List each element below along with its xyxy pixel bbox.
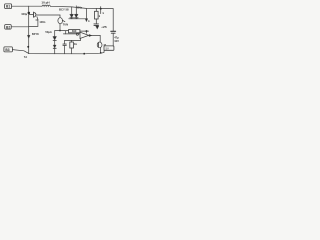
- junction node A dot: [28, 12, 31, 15]
- wire rail after coil: [50, 6, 113, 8]
- svg-text:BZY8: BZY8: [32, 32, 39, 36]
- resistor R3 box: [70, 42, 74, 48]
- capacitor C2 top tick: [36, 19, 38, 21]
- wire J1 to node A: [12, 5, 29, 7]
- svg-text:5V: 5V: [106, 46, 110, 50]
- svg-text:10V: 10V: [114, 39, 119, 43]
- V1 current arrowhead: [27, 35, 30, 38]
- diode D2 triangle: [75, 14, 79, 17]
- svg-text:B3: B3: [5, 48, 9, 52]
- diode D2 stub: [75, 18, 77, 19]
- resistor R4 box: [95, 11, 99, 19]
- resistor R3 bottom lead: [71, 48, 73, 54]
- transistor Q2 emitter lead: [59, 24, 61, 31]
- transistor Q3 emitter lead: [100, 48, 102, 53]
- diode D1 stub: [71, 18, 73, 19]
- tick connecting divider to input: [65, 31, 67, 34]
- svg-text:B1: B1: [6, 5, 10, 9]
- vertical wire V1 (left bus): [28, 6, 30, 53]
- capacitor C5 top plate: [111, 30, 116, 32]
- node E dot: [83, 53, 85, 55]
- diode D1 triangle: [70, 14, 74, 17]
- wire lower input: [65, 38, 81, 40]
- transistor Q2 emitter arrow: [62, 20, 65, 22]
- diode D2 cathode bar: [75, 17, 79, 19]
- input bubble: [76, 33, 78, 35]
- capacitor C5 lead down: [112, 33, 114, 46]
- wire divider row: [55, 30, 69, 32]
- svg-text:7A: 7A: [24, 55, 27, 59]
- capacitor C1 plate bar: [33, 12, 35, 17]
- node B dot: [59, 30, 61, 32]
- capacitor C1 curved plate: [35, 13, 36, 17]
- zener D3 lead: [54, 31, 56, 37]
- stub node C to op-amp: [86, 31, 88, 33]
- diode D4 lead: [54, 41, 56, 45]
- capacitor C4 bottom plate: [94, 24, 99, 26]
- capacitor C6 lead to rail: [64, 46, 66, 54]
- capacitor C6 top plate: [63, 43, 66, 45]
- diode D2 lead: [75, 6, 77, 14]
- node D dot: [100, 8, 102, 10]
- diode D4 triangle: [53, 45, 56, 48]
- bottom rail: [12, 50, 104, 54]
- svg-text:TUN: TUN: [63, 22, 69, 26]
- node D stub down: [100, 9, 102, 14]
- svg-text:50µA: 50µA: [45, 30, 51, 34]
- transistor Q3 base bar: [98, 43, 100, 47]
- resistor R5 box: [69, 30, 80, 33]
- transistor Q2 collector lead: [59, 15, 61, 18]
- capacitor C1 wire stub: [29, 14, 33, 16]
- capacitor C6 bottom plate: [63, 45, 66, 47]
- wire under diodes: [69, 18, 87, 20]
- transistor Q3 body: [97, 42, 102, 48]
- inductor L1 coil: [42, 5, 50, 6]
- capacitor C4 top plate: [94, 23, 99, 25]
- op-amp output wire: [89, 35, 101, 40]
- supply arrowhead +VB: [95, 24, 97, 27]
- wire J2 to V1: [11, 26, 29, 28]
- svg-text:+VB: +VB: [101, 25, 106, 29]
- op-amp U1 triangle: [80, 32, 89, 38]
- svg-text:100µ: 100µ: [21, 12, 27, 16]
- node C dot: [86, 30, 88, 32]
- wire top rail with slight slope: [29, 5, 42, 7]
- diode D4 lead to rail: [54, 48, 56, 54]
- capacitor C2 vertical wire: [29, 20, 38, 27]
- wire op-amp plus input: [63, 33, 79, 35]
- supply arrowhead: [85, 19, 88, 22]
- output box J4: [104, 46, 114, 50]
- terminal box J3 (bottom-left): [4, 47, 13, 52]
- zener D3 triangle: [53, 37, 56, 40]
- diode D4 cathode bar: [53, 47, 56, 49]
- wire R4 to C4: [95, 19, 97, 24]
- svg-text:BCY 58: BCY 58: [59, 7, 69, 11]
- resistor R4 lead from rail: [95, 9, 97, 12]
- output arrow glyph: [89, 34, 92, 36]
- resistor R3 top stub: [71, 40, 73, 42]
- transistor Q3 collector from op-amp: [99, 41, 101, 43]
- transistor Q2 body: [58, 18, 63, 24]
- supply arrow down at x86.5: [86, 9, 88, 19]
- right rail corner down: [112, 9, 114, 32]
- V1 lower dot: [27, 46, 29, 48]
- capacitor C5 bottom plate: [111, 32, 115, 34]
- zener D3 bottom bar: [53, 40, 56, 42]
- capacitor C6 lead: [64, 40, 66, 44]
- svg-text:B2: B2: [6, 25, 10, 29]
- diode D1 cathode bar: [70, 17, 74, 19]
- terminal box J1 (top-left input): [5, 4, 12, 9]
- junction node D tick up: [100, 7, 102, 9]
- terminal box J2 (left mid): [5, 25, 12, 30]
- svg-text:390: 390: [72, 29, 77, 33]
- node F dot: [100, 52, 102, 54]
- svg-text:100n: 100n: [39, 20, 45, 24]
- svg-text:D6a: D6a: [77, 6, 82, 10]
- wire R5 to node C: [80, 30, 89, 32]
- diode D1 lead: [71, 7, 73, 14]
- zener D3 top bar: [53, 36, 56, 38]
- svg-text:10 µH: 10 µH: [41, 0, 49, 4]
- wire C1 to Q2 base: [37, 14, 60, 16]
- capacitor C2 lead from C1: [37, 17, 38, 20]
